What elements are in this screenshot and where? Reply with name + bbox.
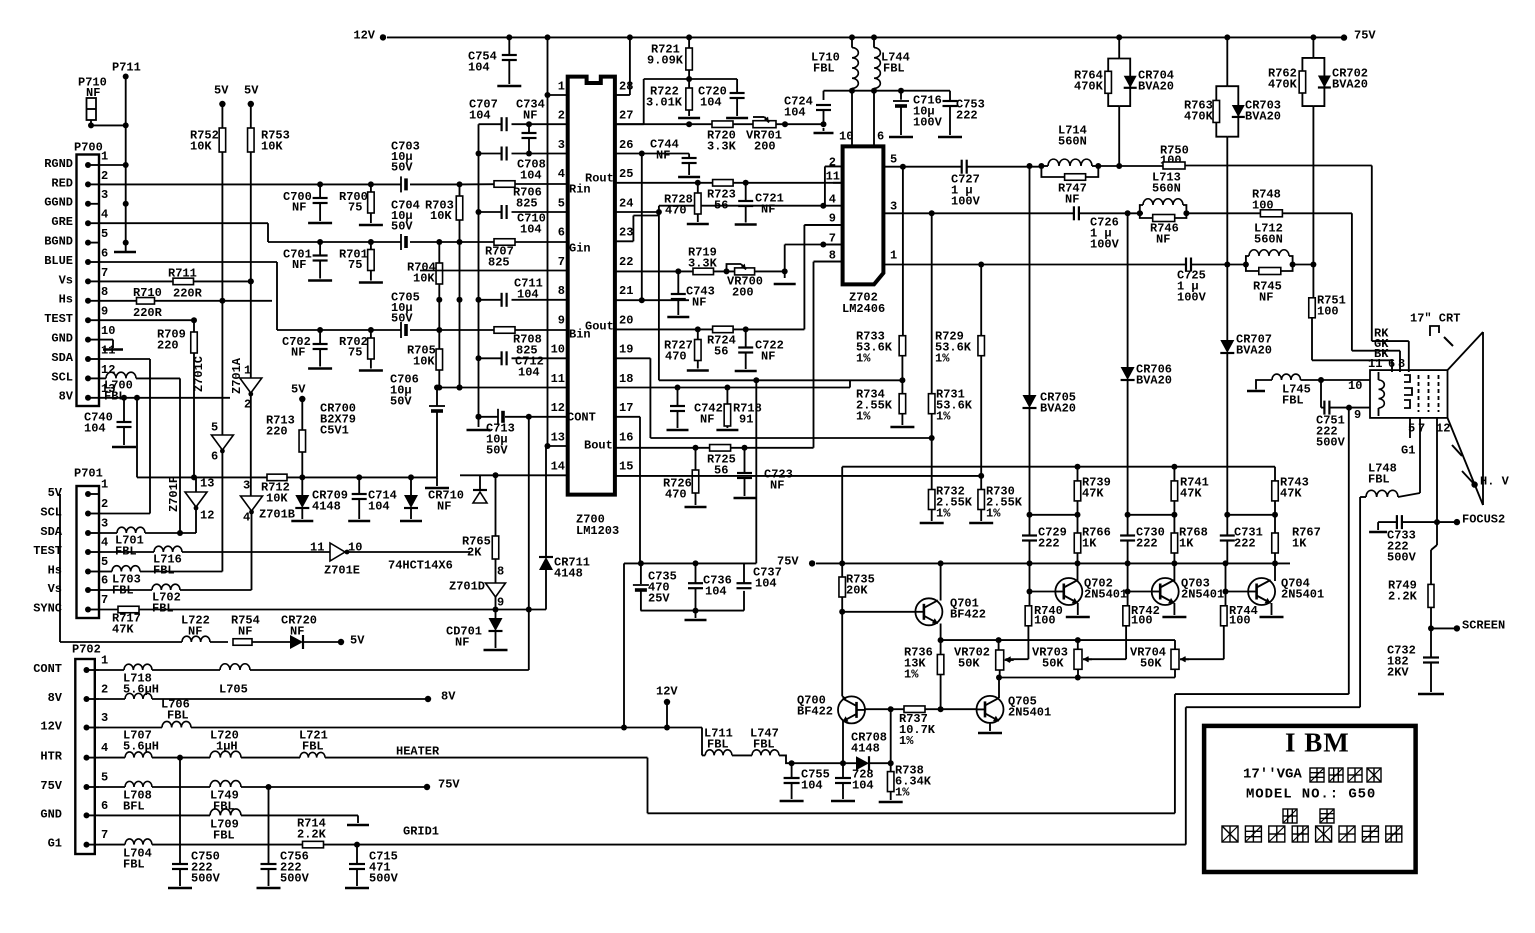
svg-text:2.2K: 2.2K (1388, 589, 1418, 603)
svg-text:4: 4 (101, 535, 108, 549)
svg-text:9: 9 (829, 211, 836, 225)
terminal 5V (338, 639, 344, 645)
svg-text:75: 75 (348, 200, 362, 214)
svg-text:P701: P701 (74, 466, 103, 480)
svg-text:2KV: 2KV (1387, 665, 1409, 679)
svg-text:NF: NF (770, 478, 784, 492)
wire SCL line with L700 (99, 377, 106, 379)
svg-text:825: 825 (488, 255, 510, 269)
svg-text:104: 104 (705, 584, 727, 598)
svg-text:100: 100 (1131, 613, 1153, 627)
svg-text:50V: 50V (391, 219, 413, 233)
svg-text:8: 8 (497, 564, 504, 578)
resistor R764 / diode CR704 pair (1108, 59, 1119, 107)
wire 12V top rail (380, 34, 386, 40)
wire VREF node line (644, 78, 737, 80)
wire RED line (99, 183, 401, 185)
svg-text:LM2406: LM2406 (842, 302, 885, 316)
svg-text:6: 6 (1388, 357, 1395, 371)
svg-text:BVA20: BVA20 (1040, 401, 1076, 415)
svg-text:12: 12 (551, 401, 565, 415)
svg-text:7: 7 (101, 593, 108, 607)
svg-text:FBL: FBL (153, 563, 175, 577)
svg-text:11: 11 (551, 372, 565, 386)
svg-text:NF: NF (1156, 232, 1170, 246)
svg-text:104: 104 (518, 365, 540, 379)
svg-text:222: 222 (1038, 536, 1060, 550)
wire Z700 pin 27 row - R720 VR701 (615, 123, 712, 125)
svg-text:47K: 47K (1180, 486, 1202, 500)
wire G1 run to CRT (1185, 707, 1187, 844)
wire Z700 pin 25 Rout row (615, 182, 713, 184)
svg-text:220R: 220R (173, 286, 203, 300)
svg-text:8V: 8V (48, 691, 63, 705)
wire Z700 pin 21 row (615, 299, 689, 301)
svg-text:3.3K: 3.3K (707, 139, 737, 153)
svg-text:NF: NF (700, 412, 714, 426)
wire Z700 pin 20 Gout row (615, 328, 713, 330)
IC Z700 LM1203 (568, 77, 615, 495)
svg-text:470: 470 (665, 349, 687, 363)
svg-text:FBL: FBL (813, 61, 835, 75)
svg-text:GRID1: GRID1 (403, 824, 439, 838)
svg-text:FBL: FBL (883, 61, 905, 75)
wire Z702 pin7 net riser to C735 rail (659, 379, 850, 381)
inductor L706 FBL (99, 698, 125, 700)
svg-text:8: 8 (101, 285, 108, 299)
svg-text:6: 6 (558, 226, 565, 240)
svg-text:104: 104 (469, 108, 491, 122)
svg-text:17" CRT: 17" CRT (1410, 311, 1460, 325)
svg-text:Hs: Hs (59, 293, 73, 307)
svg-text:500V: 500V (280, 871, 310, 885)
svg-text:5V: 5V (291, 382, 306, 396)
svg-text:GND: GND (51, 332, 73, 346)
svg-text:470: 470 (665, 203, 687, 217)
svg-text:4: 4 (243, 510, 250, 524)
svg-text:470K: 470K (1268, 77, 1298, 91)
svg-text:10K: 10K (190, 139, 212, 153)
svg-text:500V: 500V (191, 871, 221, 885)
title box IBM (1204, 726, 1416, 872)
svg-text:5: 5 (101, 555, 108, 569)
svg-text:CONT: CONT (567, 410, 596, 424)
svg-text:Z701F: Z701F (167, 476, 181, 512)
wire Z700 pin 15 row to R730 (615, 475, 981, 477)
svg-text:104: 104 (84, 421, 106, 435)
svg-text:18: 18 (619, 372, 633, 386)
svg-text:10: 10 (101, 324, 115, 338)
svg-text:NF: NF (656, 148, 670, 162)
wire G cathode to CRT (1351, 213, 1353, 350)
ground bus left of Z700 (478, 124, 480, 427)
clamp pair R764 CR704 BVA20 (1118, 37, 1120, 58)
svg-text:104: 104 (520, 168, 542, 182)
terminal 8V (425, 696, 431, 702)
IC Z702 LM2406 (843, 146, 884, 284)
svg-text:13: 13 (200, 476, 214, 490)
clamp pair R762 CR702 BVA20 (1312, 37, 1314, 58)
svg-text:104: 104 (700, 95, 722, 109)
terminal SCREEN (1431, 627, 1455, 629)
svg-text:3: 3 (890, 199, 897, 213)
svg-text:56: 56 (714, 344, 728, 358)
svg-text:FBL: FBL (152, 601, 174, 615)
svg-text:Gout: Gout (585, 319, 614, 333)
svg-text:2K: 2K (467, 545, 482, 559)
svg-text:8: 8 (558, 284, 565, 298)
svg-text:220: 220 (266, 424, 288, 438)
svg-text:FOCUS2: FOCUS2 (1462, 512, 1505, 526)
svg-text:2N5401: 2N5401 (1084, 587, 1127, 601)
svg-text:5: 5 (211, 420, 218, 434)
wire Z700 pin 19 to R731 line (615, 357, 651, 359)
svg-text:Z701B: Z701B (259, 507, 295, 521)
svg-text:RGND: RGND (44, 157, 73, 171)
svg-text:5: 5 (890, 152, 897, 166)
svg-text:4148: 4148 (851, 741, 880, 755)
wire BLUE line to Bin (99, 261, 277, 263)
svg-text:I BM: I BM (1285, 728, 1350, 758)
svg-text:23: 23 (619, 226, 633, 240)
wire 75V bus (816, 562, 1290, 564)
wire Bout to Z702 pin 8 (813, 262, 815, 448)
svg-text:FBL: FBL (1368, 472, 1390, 486)
wire Gout to Z702 pin 9 (803, 225, 805, 330)
svg-text:NF: NF (291, 345, 305, 359)
svg-text:91: 91 (739, 412, 753, 426)
svg-text:50V: 50V (391, 311, 413, 325)
svg-text:BVA20: BVA20 (1332, 77, 1368, 91)
wire Z700 pin 13 (548, 445, 568, 447)
svg-text:104: 104 (468, 60, 490, 74)
wire R712 bus line (137, 476, 267, 478)
svg-text:1: 1 (244, 363, 251, 377)
svg-text:222: 222 (956, 108, 978, 122)
svg-text:4: 4 (101, 208, 108, 222)
svg-text:16: 16 (619, 430, 633, 444)
svg-text:500V: 500V (369, 871, 399, 885)
svg-text:50V: 50V (390, 394, 412, 408)
svg-text:NF: NF (761, 349, 775, 363)
svg-text:20: 20 (619, 313, 633, 327)
svg-text:1%: 1% (986, 506, 1001, 520)
svg-text:3: 3 (101, 188, 108, 202)
svg-text:100: 100 (1034, 613, 1056, 627)
svg-text:10K: 10K (266, 491, 288, 505)
svg-text:Z701D: Z701D (449, 579, 485, 593)
svg-text:2: 2 (101, 169, 108, 183)
svg-text:2: 2 (829, 155, 836, 169)
wire P701 SCL (99, 513, 150, 515)
svg-text:NF: NF (523, 108, 537, 122)
svg-text:47K: 47K (1082, 486, 1104, 500)
svg-text:2.2K: 2.2K (297, 827, 327, 841)
svg-text:5V: 5V (214, 83, 229, 97)
svg-text:Rout: Rout (585, 171, 614, 185)
svg-text:5: 5 (558, 196, 565, 210)
svg-text:Vs: Vs (59, 273, 73, 287)
svg-text:9.09K: 9.09K (647, 53, 684, 67)
wire Z700 pin 16 Bout row (615, 447, 710, 449)
svg-text:SCREEN: SCREEN (1462, 618, 1505, 632)
svg-text:104: 104 (755, 576, 777, 590)
terminal 75V top right (1341, 34, 1347, 40)
svg-text:22: 22 (619, 255, 633, 269)
svg-text:47K: 47K (1280, 486, 1302, 500)
wire C735 cluster rails (624, 562, 756, 564)
svg-text:50K: 50K (958, 656, 980, 670)
svg-text:75: 75 (348, 345, 362, 359)
svg-text:50V: 50V (391, 160, 413, 174)
svg-text:24: 24 (619, 196, 633, 210)
wire CONT riser from P702 (528, 417, 530, 670)
svg-text:470K: 470K (1184, 109, 1214, 123)
svg-text:3: 3 (101, 711, 108, 725)
svg-text:100V: 100V (1177, 290, 1207, 304)
svg-text:NF: NF (455, 635, 469, 649)
svg-text:GGND: GGND (44, 196, 73, 210)
svg-text:6: 6 (101, 799, 108, 813)
svg-text:10K: 10K (261, 139, 283, 153)
wire TEST line (99, 319, 194, 321)
svg-text:2N5401: 2N5401 (1181, 587, 1224, 601)
resistor R762 / diode CR702 pair (1302, 58, 1313, 106)
svg-text:BGND: BGND (44, 235, 73, 249)
svg-text:9: 9 (1354, 408, 1361, 422)
svg-text:220R: 220R (133, 306, 163, 320)
svg-text:470: 470 (665, 487, 687, 501)
svg-text:17''VGA: 17''VGA (1243, 767, 1302, 783)
svg-text:1K: 1K (1292, 536, 1307, 550)
svg-text:5V: 5V (350, 633, 365, 647)
svg-text:75: 75 (348, 258, 362, 272)
svg-text:3: 3 (558, 138, 565, 152)
svg-text:SYNC: SYNC (33, 601, 62, 615)
svg-text:NF: NF (238, 624, 252, 638)
svg-text:56: 56 (714, 198, 728, 212)
terminal H.V (1471, 481, 1477, 487)
svg-text:P700: P700 (74, 140, 103, 154)
svg-text:25: 25 (619, 167, 633, 181)
svg-text:75V: 75V (1354, 28, 1376, 42)
svg-text:1K: 1K (1082, 536, 1097, 550)
svg-text:13: 13 (551, 430, 565, 444)
svg-text:4: 4 (558, 167, 565, 181)
svg-text:15: 15 (619, 460, 633, 474)
wire Z700 pin 17 to C735 rail (615, 416, 640, 418)
svg-text:H. V: H. V (1480, 474, 1510, 488)
svg-text:104: 104 (852, 778, 874, 792)
svg-text:10: 10 (551, 343, 565, 357)
svg-text:12: 12 (200, 508, 214, 522)
svg-text:FBL: FBL (302, 739, 324, 753)
svg-text:1%: 1% (935, 351, 950, 365)
svg-text:12: 12 (101, 363, 115, 377)
svg-text:NF: NF (292, 200, 306, 214)
svg-text:7: 7 (829, 231, 836, 245)
svg-text:LM1203: LM1203 (576, 524, 619, 538)
svg-text:500V: 500V (1387, 550, 1417, 564)
svg-text:222: 222 (1136, 536, 1158, 550)
svg-text:HEATER: HEATER (396, 744, 440, 758)
clamp pair R763 CR703 BVA20 (1226, 37, 1228, 86)
svg-text:1K: 1K (1179, 536, 1194, 550)
svg-text:NF: NF (292, 258, 306, 272)
svg-text:8V: 8V (59, 390, 74, 404)
svg-text:12V: 12V (656, 684, 678, 698)
svg-text:6: 6 (211, 449, 218, 463)
svg-text:BF422: BF422 (950, 607, 986, 621)
svg-text:BVA20: BVA20 (1136, 373, 1172, 387)
svg-text:Z701E: Z701E (324, 563, 360, 577)
wire Q701 emitter to VR rail (941, 639, 1175, 641)
svg-text:SCL: SCL (40, 505, 62, 519)
svg-text:50K: 50K (1140, 656, 1162, 670)
svg-text:5: 5 (101, 227, 108, 241)
wire P701 Hs with L703 (99, 571, 112, 573)
svg-text:7: 7 (101, 266, 108, 280)
wire pin26 to pin21 link (641, 154, 643, 301)
svg-text:9: 9 (497, 595, 504, 609)
wire Vs line (99, 280, 173, 282)
svg-text:20K: 20K (846, 583, 868, 597)
svg-text:P702: P702 (72, 642, 101, 656)
svg-text:G1: G1 (1401, 443, 1415, 457)
svg-text:560N: 560N (1058, 134, 1087, 148)
svg-text:8: 8 (829, 248, 836, 262)
wire Z700 pin7 stub (420, 270, 568, 272)
svg-text:560N: 560N (1152, 181, 1181, 195)
wire 12V to L711 row (701, 728, 703, 756)
wire B cathode to CRT (1312, 359, 1392, 361)
svg-text:21: 21 (619, 284, 633, 298)
svg-text:100: 100 (1317, 304, 1339, 318)
svg-text:1: 1 (890, 248, 897, 262)
svg-text:2: 2 (558, 109, 565, 123)
svg-text:Z701C: Z701C (192, 356, 206, 392)
svg-text:3.01K: 3.01K (646, 95, 683, 109)
wire Z700 pin 18 row C742 R718 (615, 387, 850, 389)
CRT socket (1370, 370, 1448, 418)
wire 75V upper rail (841, 467, 843, 564)
svg-text:4: 4 (829, 192, 836, 206)
resistor R763 / diode CR703 pair (1216, 86, 1227, 137)
wire Z700 pin 28 from rail (629, 37, 631, 95)
svg-text:17: 17 (619, 401, 633, 415)
svg-text:G1: G1 (48, 837, 62, 851)
P700 GND pin stub (99, 339, 113, 341)
svg-text:104: 104 (801, 778, 823, 792)
svg-text:27: 27 (619, 109, 633, 123)
svg-text:2N5401: 2N5401 (1281, 587, 1324, 601)
svg-text:222: 222 (1234, 536, 1256, 550)
CRT socket pin brackets (1404, 375, 1410, 382)
svg-text:100: 100 (1229, 613, 1251, 627)
svg-text:BVA20: BVA20 (1138, 79, 1174, 93)
svg-text:825: 825 (516, 196, 538, 210)
svg-text:25V: 25V (648, 591, 670, 605)
svg-text:1%: 1% (936, 506, 951, 520)
svg-text:9: 9 (558, 313, 565, 327)
wire Hs line (99, 300, 137, 302)
svg-text:200: 200 (732, 285, 754, 299)
svg-text:28: 28 (619, 79, 633, 93)
svg-text:26: 26 (619, 138, 633, 152)
svg-text:2: 2 (101, 682, 108, 696)
svg-text:HTR: HTR (40, 750, 62, 764)
wire GREEN line (99, 222, 268, 224)
svg-text:4148: 4148 (312, 499, 341, 513)
svg-text:7: 7 (101, 828, 108, 842)
svg-text:NF: NF (1259, 290, 1273, 304)
svg-text:1: 1 (558, 79, 565, 93)
svg-text:47K: 47K (112, 622, 134, 636)
svg-text:470K: 470K (1074, 79, 1104, 93)
svg-text:11: 11 (1368, 357, 1382, 371)
svg-text:FBL: FBL (1282, 393, 1304, 407)
svg-text:4148: 4148 (554, 566, 583, 580)
wire FOCUS2 line C733 (1378, 521, 1397, 523)
wire SDA line (99, 358, 150, 360)
svg-text:C5V1: C5V1 (320, 423, 349, 437)
wire Z702 supply node (824, 90, 951, 92)
wire Z702 pin 7 feed (785, 244, 824, 246)
svg-text:NF: NF (1065, 192, 1079, 206)
svg-text:SDA: SDA (51, 351, 73, 365)
svg-text:500V: 500V (1316, 435, 1346, 449)
svg-text:1%: 1% (904, 667, 919, 681)
wire Z700 pin 11 C706 (437, 387, 568, 389)
svg-text:5: 5 (101, 770, 108, 784)
wire 8V line C740 (99, 397, 230, 399)
svg-text:BVA20: BVA20 (1245, 109, 1281, 123)
svg-text:1%: 1% (856, 351, 871, 365)
wire 12V to Z700 pin 1 (547, 37, 549, 446)
svg-text:2N5401: 2N5401 (1008, 705, 1051, 719)
svg-text:GRE: GRE (51, 215, 73, 229)
svg-text:1: 1 (101, 653, 108, 667)
svg-text:1: 1 (101, 149, 108, 163)
svg-text:Gin: Gin (569, 241, 591, 255)
svg-text:Z701A: Z701A (230, 357, 244, 394)
svg-text:100V: 100V (1090, 237, 1120, 251)
CRT pin 7 / G1 via L748 (1419, 418, 1421, 493)
svg-text:10K: 10K (413, 271, 435, 285)
svg-text:75V: 75V (40, 779, 62, 793)
svg-text:10: 10 (1348, 379, 1362, 393)
svg-text:FBL: FBL (167, 708, 189, 722)
wire SYNC line R717 (99, 609, 118, 611)
wire Z700 pin 26 C744 (615, 153, 689, 155)
wire P701 TEST with L716 (99, 551, 154, 553)
svg-text:NF: NF (437, 499, 451, 513)
svg-text:1%: 1% (856, 409, 871, 423)
svg-text:12V: 12V (353, 28, 375, 42)
svg-text:12: 12 (1436, 421, 1450, 435)
svg-text:104: 104 (520, 222, 542, 236)
svg-text:TEST: TEST (33, 544, 62, 558)
svg-text:P711: P711 (112, 60, 141, 74)
svg-text:104: 104 (784, 105, 806, 119)
svg-text:L705: L705 (219, 682, 248, 696)
ground for cluster (695, 611, 697, 618)
svg-text:74HCT14X6: 74HCT14X6 (388, 558, 453, 572)
svg-text:50V: 50V (486, 443, 508, 457)
terminal FOCUS2 (1454, 519, 1460, 525)
svg-text:220: 220 (157, 338, 179, 352)
svg-text:CONT: CONT (33, 662, 62, 676)
